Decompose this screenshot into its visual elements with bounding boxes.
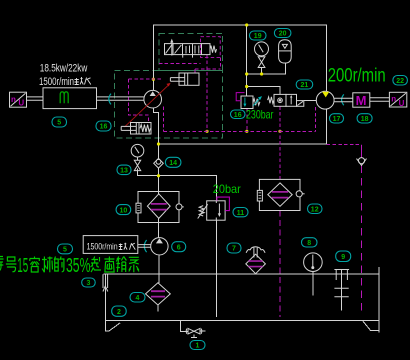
pilot magenta dashed network (129, 55, 362, 317)
svg-text:200r/min: 200r/min (328, 66, 386, 87)
svg-text:2: 2 (117, 309, 121, 316)
wire branch to accumulator (247, 63, 286, 74)
beng (129, 257, 139, 272)
label 5 input (58, 244, 73, 254)
wire tank right edge (378, 267, 380, 333)
label 20 accumulator (274, 29, 291, 38)
label 12 filter (308, 204, 323, 214)
svg-text:20bar: 20bar (213, 182, 241, 196)
wire drop to relief16 (246, 25, 248, 96)
wire shaft Mbox-to-nU (370, 98, 390, 102)
svg-text:16: 16 (234, 112, 242, 119)
chi (104, 257, 114, 273)
wire gauge13 branch (137, 168, 158, 175)
wire shaft motorbox-to-pump1 (97, 97, 144, 100)
valve V23 proportional directional (165, 41, 217, 58)
motor glyph m (60, 92, 68, 104)
wire branch to valve17 (247, 87, 280, 95)
pump U1 variable main pump (144, 90, 162, 108)
label 22 tachometer (393, 76, 408, 86)
wire suction through filter10 (158, 218, 160, 238)
wire drain pipe (180, 321, 205, 332)
svg-text:19: 19 (254, 33, 262, 40)
relief valve 15 (20bar) (198, 197, 230, 220)
svg-text:20: 20 (279, 31, 287, 38)
svg-text:6: 6 (177, 244, 181, 251)
xuan (91, 257, 102, 273)
wire relief15 to tank (215, 220, 217, 317)
svg-text:4: 4 (136, 295, 140, 302)
text annotation (green) hanzi hand-drawn: xu hao 15 rong ji de 35% xuan chi lun beng (0, 257, 139, 273)
label 15 relief (233, 208, 248, 217)
lun (116, 257, 126, 273)
wire shaft nU-to-motorbox (27, 97, 44, 100)
accumulator 20 (279, 40, 292, 63)
level indicator 9 (334, 270, 349, 311)
wire filter4 tail (157, 305, 159, 312)
label 6 coupling (96, 121, 111, 131)
svg-text:13: 13 (120, 168, 128, 175)
xu (partial at left edge) (0, 257, 4, 273)
wire pilot to lower servo cyl (129, 79, 149, 122)
label 8 temp gauge (302, 238, 318, 247)
wire relief16 drain (246, 109, 248, 132)
svg-text:1500r/min: 1500r/min (87, 241, 118, 251)
wire pressure top line pump1-to-motor (153, 25, 326, 92)
de (54, 257, 64, 272)
label 5 motor (52, 117, 67, 127)
input box 1500r/min (83, 236, 138, 254)
label 1 drain (190, 341, 205, 350)
valve 21 two-position (268, 94, 304, 106)
svg-text:15: 15 (17, 255, 28, 277)
check valve ball (leak line) (357, 158, 367, 166)
svg-text:230bar: 230bar (246, 107, 274, 121)
rong (30, 257, 40, 273)
wire drain plug stem (191, 334, 197, 337)
svg-text:n: n (11, 95, 16, 104)
hao (6, 257, 17, 272)
servo cylinder upper (stroker) (170, 73, 199, 85)
wire pump6 to filter4 (158, 255, 160, 283)
svg-text:18.5kw/22kw: 18.5kw/22kw (40, 62, 88, 74)
svg-text:5: 5 (63, 247, 67, 254)
svg-text:9: 9 (341, 254, 345, 261)
svg-text:18: 18 (361, 116, 369, 123)
wire tank bottom (106, 320, 379, 322)
servo cylinder lower (spring return) (121, 123, 151, 135)
pilot box around valve23 right (201, 37, 221, 58)
svg-text:1500r/min: 1500r/min (39, 76, 74, 88)
coupling arc pump6 (144, 240, 146, 252)
wire motor leak line (327, 144, 362, 146)
suction bell 3 (103, 274, 108, 291)
label 4 filter (130, 293, 145, 303)
svg-text:U: U (399, 99, 405, 108)
svg-text:11: 11 (237, 210, 245, 217)
node junction dots (152, 23, 282, 177)
svg-text:16: 16 (100, 124, 108, 131)
gear pump 6 (151, 238, 168, 255)
filter 12 (return filter with bypass) (257, 179, 304, 210)
wire valve17 drain to filter12 (279, 106, 281, 179)
wire pilot tap y79 (129, 78, 164, 80)
wire leak line to check (361, 166, 363, 314)
svg-text:M: M (356, 93, 367, 108)
wire tank right foot (363, 321, 379, 331)
enclosure green dashed box B (pump unit) (115, 71, 223, 138)
wire valve17 to motor11 (304, 99, 317, 101)
coupling arc right (342, 94, 344, 105)
drain valve 1 (186, 328, 202, 334)
wire pump1 outlet down (153, 108, 158, 194)
wire valve17 pilot right (314, 107, 316, 131)
wire branch to relief15 (159, 176, 217, 201)
svg-text:10: 10 (120, 207, 128, 214)
tachometer n/U left (10, 92, 27, 107)
check valve 14 (154, 158, 164, 168)
svg-text:n: n (391, 95, 396, 104)
svg-text:7: 7 (232, 246, 236, 253)
filter 4 (suction) (146, 283, 171, 305)
air breather 7 (246, 247, 266, 274)
text shuru glyphs hand-drawn (75, 77, 91, 85)
wire gauge19 stem (261, 68, 263, 75)
label 10 filter (116, 205, 131, 215)
dynamometer box M18 (353, 93, 370, 107)
enclosure green dashed box A (valve unit) (159, 33, 223, 70)
wire leak line solid segment (361, 145, 363, 158)
label 16 relief (231, 110, 246, 119)
svg-text:3: 3 (86, 280, 90, 287)
wire valve23 T dashed (159, 63, 201, 65)
relief valve 16 (230bar) (236, 93, 262, 109)
svg-text:21: 21 (301, 82, 309, 89)
wire pump1 case drain (163, 107, 165, 132)
pressure gauge 19 (255, 42, 269, 68)
label 9 level (336, 251, 351, 262)
item labels (stadium balloons) (52, 29, 407, 350)
wire tank top (103, 273, 378, 275)
wire tank left edge and left foot (106, 274, 120, 331)
svg-text:U: U (18, 99, 24, 108)
wire gauge8 stem (312, 272, 314, 296)
svg-text:35%: 35% (66, 255, 91, 277)
label 14 check (165, 157, 181, 167)
label 3 bell (82, 278, 96, 287)
wire filter12 to tank (279, 211, 281, 318)
electric motor box M5 (43, 88, 97, 109)
wire drain header y131 (164, 130, 316, 132)
label 13 gauge (117, 165, 131, 175)
wire shaft inputbox-to-pump6 (138, 245, 151, 248)
label 18 dyno (357, 114, 372, 123)
arrow variable displacement (red) (125, 85, 169, 127)
label 7 breather (227, 243, 241, 253)
label 21 valve (296, 80, 313, 89)
svg-text:8: 8 (307, 240, 311, 247)
svg-text:12: 12 (311, 207, 319, 214)
pressure gauge 13 (131, 144, 144, 171)
label 11 hyd motor (330, 114, 344, 123)
svg-text:14: 14 (169, 160, 177, 167)
ji (42, 257, 53, 273)
label 6 gear pump (172, 242, 186, 252)
filter 10 (return filter with bypass) (136, 192, 184, 223)
svg-text:1: 1 (196, 343, 200, 350)
svg-text:17: 17 (333, 116, 341, 123)
coupling arc left (109, 94, 111, 105)
wire motor drain return (159, 109, 327, 144)
temp gauge 8 (304, 253, 323, 272)
wire shaft motor-to-Mbox (334, 98, 353, 101)
svg-text:22: 22 (396, 78, 404, 85)
wire valve23 drain down (206, 55, 208, 132)
svg-text:5: 5 (57, 120, 61, 127)
hydraulic motor 11 (316, 91, 334, 109)
tachometer n/U right (389, 92, 406, 107)
label 19 gauge (250, 31, 267, 40)
label 2 tank (112, 306, 127, 316)
wire valve23 pilot to upper cyl (195, 57, 220, 73)
